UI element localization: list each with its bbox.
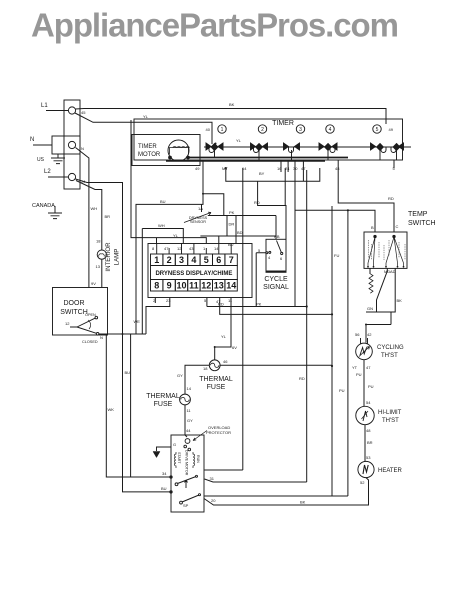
temp switch internal labels: [369, 240, 406, 260]
svg-text:34: 34: [162, 471, 167, 476]
cycle signal switch: [277, 241, 282, 253]
svg-text:HB: HB: [274, 234, 280, 239]
svg-text:WE: WE: [134, 319, 141, 324]
svg-text:PU: PU: [368, 384, 374, 389]
wire fuse 2 to overload: [185, 405, 187, 437]
svg-text:RD: RD: [254, 200, 260, 205]
wire door switch to motor (long horizontal): [99, 333, 147, 335]
svg-text:WK: WK: [108, 407, 115, 412]
wire 34 riser to motor: [106, 334, 171, 477]
svg-text:14: 14: [187, 386, 192, 391]
svg-text:HEATER: HEATER: [378, 468, 403, 474]
svg-text:44: 44: [186, 428, 191, 433]
svg-text:4: 4: [329, 127, 332, 133]
svg-text:TEMP: TEMP: [408, 211, 428, 218]
svg-text:L2: L2: [44, 169, 51, 175]
thermal fuse F2: [180, 394, 191, 405]
heater: [358, 461, 374, 477]
dryness cell numbers 1-7: [154, 255, 234, 265]
svg-text:9V: 9V: [91, 281, 96, 286]
svg-text:23: 23: [166, 298, 171, 303]
svg-text:YL: YL: [143, 114, 149, 119]
timer cam switch 4: [319, 143, 337, 160]
svg-text:30: 30: [293, 166, 298, 171]
timer contact bar: [204, 146, 411, 148]
svg-text:BU: BU: [228, 242, 234, 247]
svg-text:BU: BU: [160, 199, 166, 204]
wire timer 47 to PK line: [302, 160, 304, 181]
svg-text:5: 5: [376, 127, 379, 133]
wire timer 16 stub: [280, 160, 282, 172]
motor windings: [175, 452, 177, 468]
svg-text:46: 46: [223, 359, 228, 364]
svg-text:45: 45: [81, 110, 86, 115]
svg-text:BY: BY: [259, 171, 265, 176]
timer cam switch 6: [391, 143, 404, 160]
svg-text:CANADA: CANADA: [32, 203, 55, 209]
svg-text:WH: WH: [91, 206, 98, 211]
dryness display cell stubs: [157, 243, 232, 254]
svg-text:TIMER: TIMER: [272, 120, 294, 127]
wire BU lead to cell 7: [235, 216, 237, 243]
wire lamp to door switch: [101, 259, 103, 287]
dryness display cells 8-14: [151, 280, 238, 292]
motor terminals: [170, 476, 172, 478]
timer bus YL: [189, 157, 349, 159]
svg-text:N: N: [30, 137, 34, 143]
svg-text:BK: BK: [229, 102, 235, 107]
terminal N: [68, 141, 75, 148]
timer cam switch 5: [371, 143, 387, 160]
svg-text:HI-LIMIT: HI-LIMIT: [378, 410, 402, 416]
svg-text:1A: 1A: [198, 206, 203, 211]
svg-text:DRIVE MOTOR: DRIVE MOTOR: [185, 450, 189, 476]
svg-text:YL: YL: [221, 334, 227, 339]
wire motor BK output to temp switch: [204, 478, 369, 505]
wire motor 20 output: [205, 495, 348, 497]
wire PU long down right side: [347, 210, 349, 496]
svg-text:BU: BU: [125, 370, 131, 375]
wire RD/PK line to motor 31 riser: [207, 306, 307, 308]
svg-text:FU: FU: [334, 253, 339, 258]
temp switch box: [364, 232, 407, 268]
wire dryness 2 stub: [154, 298, 156, 303]
svg-text:DR: DR: [229, 222, 235, 227]
svg-text:N: N: [81, 146, 84, 151]
wire dryness 23 loop to door line: [146, 298, 170, 334]
svg-text:24: 24: [81, 179, 86, 184]
svg-text:N: N: [100, 335, 103, 340]
svg-text:40: 40: [206, 127, 211, 132]
wire N to door switch (WH): [76, 148, 89, 288]
svg-text:DRYNESS DISPLAY/CHIME: DRYNESS DISPLAY/CHIME: [155, 271, 232, 277]
terminal L2: [68, 173, 75, 180]
thermal fuse F1: [209, 360, 220, 371]
wire timer 14 to motor (long): [242, 168, 244, 470]
timer position circle 3: [296, 125, 304, 133]
dryness cell numbers 8-14: [154, 281, 236, 291]
svg-text:14: 14: [226, 281, 236, 291]
svg-text:RD: RD: [218, 302, 224, 307]
svg-text:48: 48: [335, 166, 340, 171]
svg-text:AppliancePartsPros.com: AppliancePartsPros.com: [31, 7, 398, 44]
svg-text:6V: 6V: [232, 345, 237, 350]
dryness display outer box: [148, 244, 252, 298]
svg-text:31: 31: [210, 476, 215, 481]
wire thermal fuse right (46): [220, 364, 332, 366]
wire timer 48 to temp switch C (RD): [338, 160, 394, 232]
svg-text:C: C: [396, 224, 399, 229]
wire timer 14 loop (BY): [226, 168, 320, 181]
svg-text:INTERIOR: INTERIOR: [105, 242, 112, 272]
wire motor 31 riser: [306, 170, 308, 482]
svg-text:GY: GY: [187, 418, 193, 423]
svg-text:TIMER: TIMER: [138, 144, 157, 150]
wire dryness sensor top lead: [201, 204, 203, 212]
svg-text:13: 13: [214, 281, 224, 291]
ground CANADA: [48, 206, 62, 219]
timer motor: [168, 140, 189, 161]
wire temp switch B feed: [295, 210, 375, 232]
svg-text:47: 47: [366, 365, 371, 370]
svg-text:48: 48: [366, 428, 371, 433]
wire 46/47 riser down to motor 20 line: [331, 206, 333, 496]
wire WH branch to dryness display: [142, 229, 183, 335]
svg-text:11: 11: [189, 281, 199, 291]
hi-limit thermostat: [356, 406, 374, 424]
svg-text:49: 49: [389, 127, 394, 132]
wire cycling to hi-limit: [363, 360, 365, 407]
terminal block: [64, 100, 80, 189]
drive motor box: [171, 435, 204, 512]
svg-text:START: START: [177, 452, 181, 464]
dryness sensor: [184, 212, 211, 222]
dryness display cells 1-7: [151, 254, 238, 266]
svg-text:PROTECTOR: PROTECTOR: [206, 430, 231, 435]
svg-text:6: 6: [216, 255, 221, 265]
svg-text:RD: RD: [299, 376, 305, 381]
timer cam switch 3: [284, 143, 300, 160]
svg-text:PK: PK: [229, 210, 235, 215]
temp switch resistor: [369, 274, 373, 293]
svg-text:9: 9: [167, 281, 172, 291]
svg-text:14: 14: [214, 246, 219, 251]
svg-text:54: 54: [366, 400, 371, 405]
overload protector: [185, 439, 190, 444]
svg-text:MOTOR: MOTOR: [138, 152, 161, 158]
svg-text:7: 7: [229, 255, 234, 265]
motor centrifugal switch 2: [182, 495, 199, 502]
svg-text:G: G: [173, 442, 176, 447]
svg-text:24: 24: [285, 166, 290, 171]
svg-text:18: 18: [203, 366, 208, 371]
wire 45 branch from YL down to door switch line: [131, 120, 206, 243]
wire L1 lead: [46, 110, 69, 112]
svg-text:YT: YT: [352, 365, 358, 370]
wire BD horizontal to cycle signal: [200, 236, 276, 243]
timer position circle 5: [373, 125, 381, 133]
timer cam switch 2: [251, 143, 268, 160]
svg-text:OPEN: OPEN: [85, 313, 96, 317]
svg-text:10: 10: [176, 281, 186, 291]
wire timer 24 stub: [287, 160, 289, 172]
junction dots: [122, 143, 368, 368]
svg-text:3: 3: [179, 255, 184, 265]
svg-text:1: 1: [154, 255, 159, 265]
svg-text:56: 56: [355, 332, 360, 337]
svg-text:BD: BD: [237, 230, 243, 235]
wire dryness 47 line: [220, 298, 332, 314]
door switch contacts: [70, 318, 96, 333]
terminal N box: [52, 136, 80, 154]
wire timer 16 to cycle signal (BD): [284, 168, 286, 206]
svg-text:L1: L1: [41, 103, 48, 109]
dryness display title band: [151, 266, 238, 280]
svg-text:TH'ST: TH'ST: [382, 418, 399, 424]
svg-text:YL: YL: [173, 233, 179, 238]
timer position circle 2: [258, 125, 266, 133]
wire N lead: [33, 144, 52, 146]
svg-text:12: 12: [65, 321, 70, 326]
svg-text:SIGNAL: SIGNAL: [263, 284, 289, 291]
svg-text:US: US: [37, 157, 45, 163]
svg-text:20: 20: [211, 498, 216, 503]
svg-text:THERMAL: THERMAL: [146, 393, 180, 400]
svg-text:53: 53: [366, 455, 371, 460]
wire timer MT to sensor area (RD): [258, 181, 286, 239]
wire L2 lead: [48, 176, 69, 178]
svg-text:SWITCH: SWITCH: [60, 309, 88, 316]
svg-text:AD: AD: [390, 269, 396, 274]
svg-text:RD: RD: [388, 196, 394, 201]
wire hi-limit to heater: [364, 425, 366, 462]
svg-text:GN: GN: [367, 306, 373, 311]
wire riser 45 to 34 line: [130, 334, 132, 477]
timer cam switch 1: [206, 143, 223, 158]
cycle signal box: [266, 239, 286, 272]
wire L1 to timer right (BK): [76, 109, 387, 125]
svg-text:47: 47: [164, 246, 169, 251]
ground US: [51, 154, 65, 164]
svg-text:PK: PK: [256, 302, 262, 307]
svg-text:BR: BR: [367, 440, 373, 445]
wire sensor DR lead: [226, 216, 228, 237]
svg-text:13: 13: [96, 264, 101, 269]
svg-text:WH: WH: [158, 223, 165, 228]
svg-text:4: 4: [191, 255, 196, 265]
svg-text:3: 3: [299, 127, 302, 133]
svg-text:DOOR: DOOR: [64, 300, 85, 307]
svg-text:BK: BK: [300, 500, 306, 505]
motor centrifugal switch 1: [178, 477, 197, 489]
svg-text:5: 5: [204, 255, 209, 265]
wire timer 30 to temp switch: [294, 160, 296, 307]
svg-text:42: 42: [367, 332, 372, 337]
svg-text:12: 12: [177, 246, 182, 251]
svg-text:2: 2: [261, 127, 264, 133]
timer position circle 1: [218, 125, 226, 133]
svg-text:8: 8: [154, 281, 159, 291]
wire thermal fuse chain to motor: [185, 365, 209, 394]
svg-text:BU: BU: [161, 486, 167, 491]
cycling thermostat: [356, 343, 373, 360]
svg-text:LAMP: LAMP: [114, 249, 121, 266]
svg-text:18: 18: [96, 239, 101, 244]
svg-text:CYCLE: CYCLE: [264, 276, 288, 283]
svg-text:12: 12: [201, 281, 211, 291]
motor ground: [157, 447, 172, 451]
svg-text:SP: SP: [183, 503, 189, 508]
svg-text:16: 16: [277, 166, 282, 171]
wire temp switch GN stub: [369, 268, 371, 274]
wire sensor to cycle area (PK): [208, 216, 276, 240]
timer position circle 4: [326, 125, 334, 133]
wire timer 49 loop (BU) to dryness sensor: [136, 160, 224, 334]
wire dryness 11 to thermal fuse: [215, 298, 231, 360]
svg-text:BK: BK: [397, 298, 403, 303]
svg-text:BR: BR: [105, 214, 111, 219]
svg-text:52: 52: [360, 480, 365, 485]
svg-text:THERMAL: THERMAL: [199, 376, 233, 383]
temp switch contacts: [368, 237, 404, 263]
wire cycle signal 5 lead: [256, 253, 266, 307]
terminal L1: [68, 107, 75, 114]
svg-text:47: 47: [301, 166, 306, 171]
svg-text:FUSE: FUSE: [154, 401, 173, 408]
interior lamp: [97, 250, 106, 259]
svg-text:2: 2: [167, 255, 172, 265]
svg-text:SWITCH: SWITCH: [408, 220, 436, 227]
wire L2 to interior lamp (BR): [76, 179, 172, 492]
svg-text:B: B: [371, 225, 374, 230]
svg-text:CYCLING: CYCLING: [377, 345, 404, 351]
svg-text:RUN: RUN: [196, 455, 200, 463]
wire dryness 5 to RD line: [206, 298, 208, 307]
svg-text:PU: PU: [339, 388, 345, 393]
svg-text:YL: YL: [236, 138, 242, 143]
svg-text:TH'ST: TH'ST: [381, 353, 398, 359]
svg-text:43: 43: [189, 246, 194, 251]
svg-text:GY: GY: [177, 373, 183, 378]
timer box: [134, 119, 403, 160]
wire temp switch resistor net: [366, 268, 395, 343]
wire motor to timer 14: [205, 469, 243, 471]
wire motor 31 output: [205, 479, 307, 482]
wire YL from L1 to timer cam 1: [75, 113, 212, 144]
svg-text:49: 49: [195, 166, 200, 171]
svg-text:SENSOR: SENSOR: [190, 220, 206, 224]
timer motor box: [132, 135, 200, 166]
svg-text:FUSE: FUSE: [207, 384, 226, 391]
wire timer 5 stub: [393, 160, 395, 168]
svg-text:CLOSED: CLOSED: [82, 340, 98, 344]
svg-text:14: 14: [242, 166, 247, 171]
svg-text:PU: PU: [356, 372, 362, 377]
door switch box: [53, 288, 108, 336]
svg-text:1: 1: [221, 127, 224, 133]
